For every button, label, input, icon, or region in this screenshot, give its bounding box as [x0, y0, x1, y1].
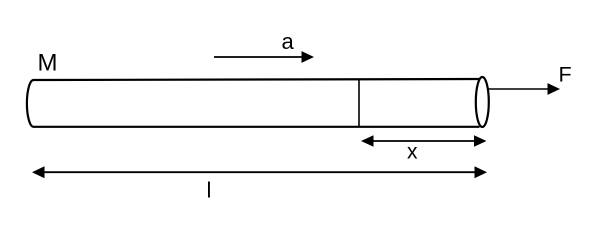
section divider line	[358, 80, 360, 127]
rod bottom edge	[34, 126, 480, 128]
l dimension double arrow	[32, 166, 487, 178]
svg-text:x: x	[407, 141, 418, 164]
rod right end cap ellipse	[476, 77, 489, 127]
acceleration arrow a	[214, 51, 314, 63]
svg-text:F: F	[559, 62, 572, 86]
x dimension double arrow	[361, 135, 487, 147]
svg-text:a: a	[282, 29, 295, 54]
force arrow F	[489, 83, 561, 95]
rod left end cap arc	[27, 80, 34, 127]
rod top edge	[34, 79, 480, 80]
svg-text:M: M	[38, 50, 58, 77]
svg-text:l: l	[207, 178, 212, 203]
